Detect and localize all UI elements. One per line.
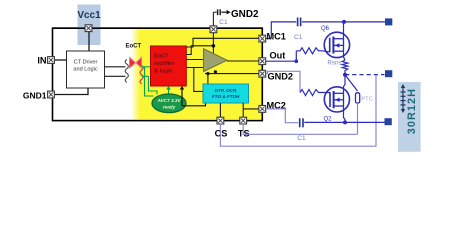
IC outer box — [53, 28, 263, 120]
terminal DC+ — [385, 18, 392, 25]
terminal DC- — [385, 118, 392, 125]
pin GND2 — [259, 70, 266, 77]
arrow to GND2 — [221, 11, 227, 13]
wire MC2 pin to TS rail — [243, 108, 259, 110]
green wire branch to ready ellipse (right) — [149, 76, 158, 94]
transistor Q2 — [324, 87, 349, 112]
svg-text:OTP, OCP,: OTP, OCP, — [215, 88, 237, 93]
svg-text:AVCT 3.3V: AVCT 3.3V — [157, 98, 182, 103]
green wire CT secondary top to rectifier box — [142, 66, 151, 68]
wire rectifier to MC1 line — [186, 38, 259, 47]
TS return wire — [243, 124, 357, 134]
Q2 source wire — [344, 106, 346, 122]
svg-text:C1: C1 — [294, 34, 303, 41]
resistor Rsns — [342, 60, 348, 75]
svg-text:EoCT: EoCT — [154, 54, 169, 60]
svg-text:FTO & FTOH: FTO & FTOH — [212, 94, 240, 99]
green wire branch to ready ellipse (left) — [145, 67, 154, 96]
svg-text:EoCT: EoCT — [126, 44, 142, 50]
green arrow ellipse to rectifier box — [168, 89, 170, 95]
junction GND2 rail to OTP box — [207, 74, 209, 85]
pin CS — [217, 117, 224, 124]
wire phase to PTC — [345, 75, 358, 91]
dashed wire to phase terminal — [345, 74, 385, 76]
svg-text:rectifier: rectifier — [154, 61, 175, 67]
pin IN — [48, 57, 55, 64]
CT Driver and Logic box U1 — [67, 51, 105, 88]
wire GND2 to Q2 gate resistor — [266, 71, 300, 92]
svg-text:Vcc1: Vcc1 — [77, 10, 101, 21]
transistor Q6 — [324, 32, 349, 57]
wire Out to gate node — [266, 60, 297, 62]
svg-text:GND1: GND1 — [23, 90, 47, 100]
EoCT rectifier & logic box U2 — [151, 46, 187, 86]
black fault wire teal box to rectifier box — [182, 89, 206, 106]
svg-text:CT Driver: CT Driver — [74, 60, 98, 66]
internal GND2 rail — [205, 73, 259, 75]
phase junction — [343, 73, 347, 77]
junction node A — [212, 44, 216, 48]
wire IN pin to driver box — [51, 59, 67, 61]
decoupling C1 to GND2 at top — [212, 12, 214, 26]
svg-text:Rsns: Rsns — [327, 60, 341, 67]
wire rectifier to OTP box input — [194, 68, 203, 92]
svg-text:30R12H: 30R12H — [406, 88, 418, 134]
wire bottom rail to terminal — [304, 121, 384, 123]
svg-text:ready: ready — [163, 105, 176, 110]
output buffer triangle — [204, 49, 228, 72]
svg-text:GND2: GND2 — [268, 71, 294, 81]
wire MC2 to bottom rail — [266, 109, 299, 123]
junction buffer bottom to GND2 rail — [214, 71, 216, 74]
wire MC1 to top rail — [266, 38, 272, 40]
module band 30R12H — [398, 82, 421, 152]
svg-text:GND2: GND2 — [231, 9, 259, 20]
wire rectifier to buffer input top — [186, 59, 204, 61]
wire top rail to terminal — [302, 21, 385, 23]
terminal phase — [385, 70, 392, 77]
pin TS — [240, 117, 247, 124]
svg-text:MC1: MC1 — [267, 32, 286, 42]
svg-text:Q2: Q2 — [324, 117, 333, 123]
wire driver box to CT primary (top) — [105, 66, 126, 68]
Vcc1 supply band — [78, 5, 101, 46]
wire Vcc1 pin to driver box — [88, 28, 90, 51]
capacitor C1 top rail — [297, 18, 299, 27]
node C1/GND2 top — [210, 26, 217, 33]
coreless transformer EoCT windings — [125, 60, 128, 83]
wire OTP box to CS pin — [219, 103, 221, 121]
green wire CT secondary bottom stub — [142, 75, 149, 77]
OTP OCP box U3 — [203, 84, 249, 103]
Q6 drain wire — [343, 22, 345, 39]
pin GND1 — [48, 91, 55, 98]
pin Out — [259, 58, 266, 65]
Q2 drain wire — [344, 75, 346, 94]
thermistor PTC — [356, 93, 360, 103]
pin MC2 — [259, 106, 266, 113]
CS return wire — [220, 75, 376, 146]
isolated-side yellow region — [131, 29, 261, 119]
wire top edge re-draw over band — [53, 27, 263, 29]
wire rectifier to buffer input bottom — [186, 67, 204, 69]
pin MC1 — [259, 35, 266, 42]
wire GND1 to driver box bottom — [51, 88, 88, 95]
gate resistor Q6 — [296, 48, 322, 54]
wire node C1 down through junction into buffer — [212, 29, 214, 54]
ready ellipse — [152, 94, 186, 113]
svg-text:C1: C1 — [219, 19, 228, 26]
svg-text:Out: Out — [270, 51, 286, 61]
svg-text:Q6: Q6 — [321, 26, 330, 32]
wire driver box to CT primary (bottom) — [105, 75, 126, 77]
wire rectifier to node line — [186, 46, 213, 55]
wire PTC to TS rail — [357, 103, 359, 134]
svg-text:PTC: PTC — [361, 96, 373, 102]
svg-text:and Logic: and Logic — [73, 67, 97, 73]
svg-text:IN: IN — [37, 56, 47, 66]
wire buffer output to Out pin — [227, 60, 259, 62]
pin Vcc1 — [85, 25, 92, 32]
coreless transformer bowtie symbol — [130, 57, 136, 68]
wire OTP box to TS pin — [242, 103, 244, 121]
svg-text:& logic: & logic — [154, 69, 173, 75]
capacitor C1 bottom rail — [299, 118, 301, 127]
svg-text:C1: C1 — [297, 135, 306, 142]
Q6 source wire — [344, 51, 346, 60]
module height arrow — [401, 87, 406, 110]
